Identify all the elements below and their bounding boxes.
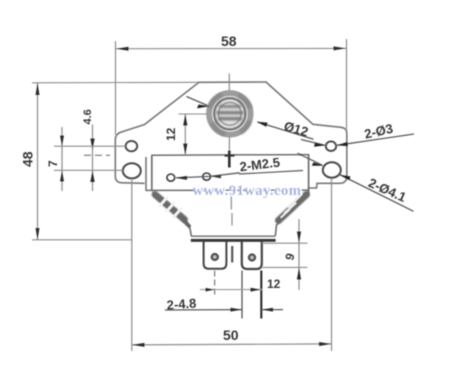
label 2-M2.5 text	[239, 155, 281, 175]
left ear hole top	[126, 141, 138, 151]
label 2-dia3 text	[363, 121, 394, 142]
dim 58 arrow right	[334, 46, 346, 50]
dim 9 arrow down	[297, 232, 301, 243]
dim 50 arrow right	[319, 342, 331, 346]
label 2-M2.5 underline	[239, 171, 303, 175]
terminal hole left	[212, 254, 218, 260]
bottom band	[191, 235, 275, 237]
leader 2-dia4.1 right arrow	[340, 175, 351, 181]
dim 58 line	[116, 47, 346, 49]
leader 2-dia3 right arrow	[337, 142, 348, 146]
dim 12 lower arrow right	[251, 288, 261, 292]
leader dia12 right arrow	[257, 122, 268, 127]
extension line holes top	[54, 145, 126, 147]
dim 50 line	[132, 344, 331, 345]
plate hole right	[203, 173, 211, 180]
shaft boss outer ring	[209, 93, 251, 135]
dim 48 arrow top	[36, 83, 40, 95]
dim 12 lower line	[200, 289, 262, 291]
dim 2-4.8 arrow left	[231, 308, 242, 312]
dim 12 upper arrow up	[183, 114, 187, 125]
dim 50 left extension	[131, 179, 133, 352]
lower body right slant	[275, 195, 308, 237]
leader M2.5 line	[176, 173, 240, 178]
extension dashed middle	[84, 154, 110, 156]
leader 2-dia3 left segment	[301, 140, 325, 146]
dim 48 top extension	[32, 81, 199, 84]
svg-text:50: 50	[223, 327, 239, 343]
leader 2-dia3 right segment	[337, 134, 414, 145]
dim 2-4.8 text	[166, 296, 197, 313]
svg-text:4.6: 4.6	[82, 109, 94, 124]
center dash between tabs	[231, 246, 233, 263]
dim 48 bottom extension	[32, 239, 132, 241]
dim 9 arrow up	[297, 268, 301, 280]
dim 2-4.8 arrow right	[262, 308, 273, 312]
terminal tab left	[204, 242, 227, 269]
dim 7 line	[61, 127, 63, 191]
dim 2-4.8 line	[165, 309, 242, 311]
shaft boss inner circle	[218, 102, 241, 125]
label dia12 text	[282, 118, 310, 139]
dim 48 line	[37, 83, 39, 240]
shaft boss outer ring mottling	[210, 95, 251, 134]
leader 2-dia4.1 right segment	[340, 175, 414, 212]
dim 9 extension top	[262, 242, 308, 244]
center line thick bar at plate top	[228, 151, 231, 168]
svg-text:12: 12	[267, 277, 281, 291]
dim 58 arrow left	[116, 47, 128, 51]
left ear hole bottom	[123, 163, 141, 178]
dim 58 extension left	[115, 41, 117, 135]
dim 2-4.8 right line	[262, 309, 284, 311]
svg-text:12: 12	[164, 127, 178, 141]
dim 4.6 arrow down	[90, 139, 94, 150]
leader 2-dia3 left arrow	[314, 143, 326, 147]
label 2-dia4.1 text	[366, 175, 408, 205]
svg-text:7: 7	[46, 160, 60, 167]
dim 12 upper extension	[179, 113, 208, 115]
lower body left slant	[153, 192, 191, 236]
right hatch band	[279, 195, 307, 221]
terminal tab right	[242, 242, 262, 270]
plate hole left	[167, 174, 175, 181]
dim 50 right extension	[331, 179, 333, 352]
dim 12 lower right tab extensions	[241, 271, 243, 319]
svg-text:48: 48	[20, 151, 36, 167]
leader 2-dia4.1 left arrow	[312, 162, 324, 166]
shaft inner shading	[217, 107, 244, 119]
plate rectangle	[146, 155, 309, 195]
dim 7 arrow up	[60, 171, 64, 182]
right ear hole top	[326, 141, 336, 151]
dim 50 arrow left	[132, 343, 144, 347]
leader dia12 right segment	[258, 122, 314, 139]
body outline flange	[115, 82, 346, 195]
watermark	[193, 183, 303, 200]
leader M2.5 arrow right hole	[211, 175, 221, 179]
svg-text:58: 58	[221, 33, 237, 49]
terminal hole right	[249, 255, 255, 261]
dim 12 lower arrow left	[206, 288, 215, 292]
dim 12 lower left extension dashed	[214, 271, 216, 295]
shaft boss ring2	[214, 98, 245, 129]
dim 9 line	[298, 219, 300, 290]
leader 2-dia4.1 left segment	[298, 153, 323, 165]
dim 4.6 line	[92, 125, 94, 192]
dim 48 arrow bottom	[36, 228, 40, 240]
left hatch band	[155, 195, 190, 227]
dim 4.6 arrow up	[90, 171, 94, 182]
leader dia12 left segment	[187, 97, 208, 106]
leader dia12 left arrow	[197, 105, 210, 109]
dim 9 extension bottom	[262, 266, 308, 268]
center line segments	[229, 74, 232, 226]
dim 12 upper arrow down	[183, 144, 187, 155]
dim 7 arrow down	[60, 136, 64, 147]
dim 12 upper line	[184, 114, 186, 155]
right ear hole bottom	[323, 162, 341, 177]
dim 58 extension right	[346, 39, 348, 130]
leader M2.5 arrow left hole	[176, 176, 188, 180]
svg-text:www.91way.com: www.91way.com	[193, 183, 302, 199]
extension line holes bottom	[54, 169, 123, 171]
